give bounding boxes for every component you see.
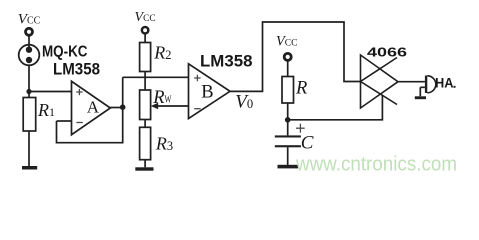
svg-text:C: C: [301, 133, 314, 154]
svg-text:LM358: LM358: [53, 61, 100, 79]
svg-text:R: R: [295, 79, 307, 99]
svg-text:HA: HA: [435, 76, 454, 91]
svg-text:MQ-KC: MQ-KC: [42, 44, 88, 61]
svg-text:A: A: [87, 97, 100, 116]
svg-text:4066: 4066: [367, 45, 407, 60]
svg-text:www.cntronics.com: www.cntronics.com: [295, 154, 457, 176]
svg-text:LM358: LM358: [200, 53, 253, 71]
svg-text:B: B: [201, 83, 213, 103]
